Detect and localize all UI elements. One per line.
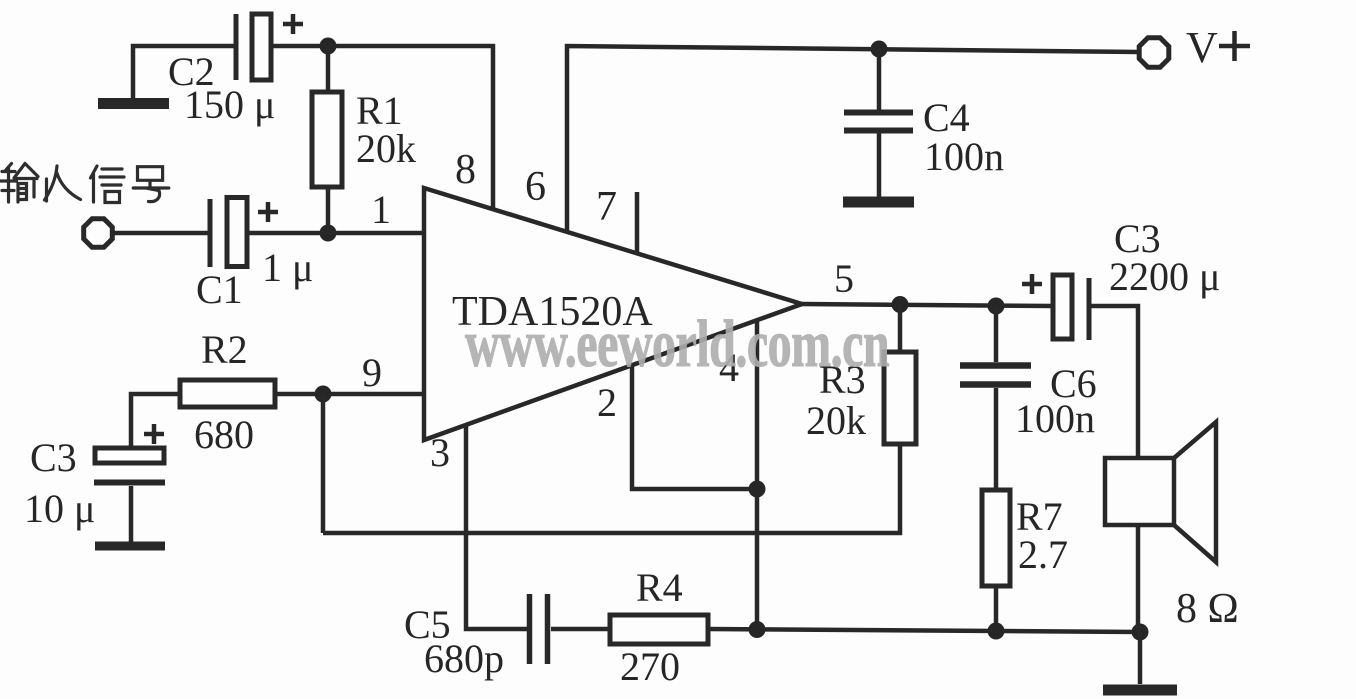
node J dot (speaker) [1132, 624, 1149, 641]
svg-text:2: 2 [597, 380, 617, 425]
wire speaker to ground [1138, 632, 1143, 684]
node D dot [892, 296, 909, 313]
svg-text:2.7: 2.7 [1018, 532, 1068, 577]
feedback wire down [321, 394, 326, 533]
resistor R1 [326, 46, 331, 92]
wire input to C1 [113, 231, 210, 236]
pin 9 wire [275, 392, 422, 397]
ground under C4 [843, 197, 914, 208]
svg-text:V: V [1186, 23, 1218, 72]
svg-text:5: 5 [834, 256, 854, 301]
svg-text:8: 8 [455, 147, 476, 193]
node C4 top dot [871, 41, 888, 58]
svg-text:C1: C1 [196, 267, 243, 312]
node B dot (pin1) [320, 225, 337, 242]
svg-text:100n: 100n [1015, 396, 1095, 441]
svg-text:3: 3 [430, 430, 450, 475]
capacitor C1 [208, 199, 213, 267]
svg-text:150 μ: 150 μ [184, 82, 275, 127]
resistor R3 [898, 305, 903, 353]
svg-text:C3: C3 [30, 435, 77, 480]
svg-text:100n: 100n [924, 134, 1004, 179]
ground G1 top-left [98, 98, 169, 109]
bottom rail [708, 629, 1140, 632]
capacitor C3 10u [95, 448, 164, 463]
label input chinese [1, 164, 169, 203]
pin 7 stub [635, 192, 640, 254]
op-amp U1 TDA1520A [424, 188, 802, 440]
wire C2 to node A [270, 44, 328, 49]
wire ground to C2 [133, 46, 236, 99]
svg-text:20k: 20k [806, 398, 866, 443]
ground bottom-right [1103, 685, 1177, 696]
char xin [91, 166, 125, 203]
resistor R7 [982, 490, 1010, 586]
svg-text:20k: 20k [356, 126, 416, 171]
svg-text:7: 7 [596, 184, 617, 230]
capacitor C2 [234, 14, 239, 80]
char shu [1, 164, 17, 203]
svg-text:270: 270 [620, 644, 680, 689]
resistor R2 [180, 380, 275, 407]
input terminal [84, 219, 113, 248]
svg-text:2200 μ: 2200 μ [1109, 254, 1220, 299]
capacitor C3 output 2200u [1022, 282, 1042, 287]
pin 4 wire [755, 321, 760, 629]
pin 5 output wire [802, 304, 1054, 306]
node H dot [749, 621, 766, 638]
svg-text:1: 1 [371, 187, 391, 232]
capacitor C6 [994, 306, 999, 362]
node I dot (R7 bottom) [988, 623, 1005, 640]
capacitor C4 [877, 49, 882, 110]
svg-text:10 μ: 10 μ [24, 486, 95, 531]
node E dot [988, 298, 1005, 315]
wire C3 to speaker [1090, 306, 1138, 458]
V+ terminal [1139, 38, 1169, 68]
svg-text:680p: 680p [424, 636, 504, 681]
pin 3 wire [466, 424, 529, 629]
svg-text:8 Ω: 8 Ω [1176, 586, 1239, 632]
svg-text:1 μ: 1 μ [262, 245, 313, 290]
char hao [133, 167, 169, 202]
svg-text:www.eeworld.com.cn: www.eeworld.com.cn [465, 306, 889, 381]
wire node A to pin 8 corner [328, 46, 493, 210]
pin 6 wire [567, 46, 1139, 232]
ground under C3 10u [95, 542, 165, 551]
node A dot [320, 38, 337, 55]
node F dot (pin 9) [315, 386, 332, 403]
resistor R4 [610, 615, 708, 644]
speaker [1105, 458, 1174, 525]
capacitor C5 [527, 594, 533, 664]
node G dot [749, 481, 766, 498]
svg-text:680: 680 [194, 412, 254, 457]
svg-text:6: 6 [525, 164, 546, 210]
svg-text:R4: R4 [636, 565, 683, 610]
wire C1 to pin 1 [247, 231, 422, 236]
svg-text:R2: R2 [201, 327, 248, 372]
svg-text:9: 9 [362, 350, 382, 395]
pin 2 wire [632, 366, 757, 489]
char ru [45, 166, 81, 200]
